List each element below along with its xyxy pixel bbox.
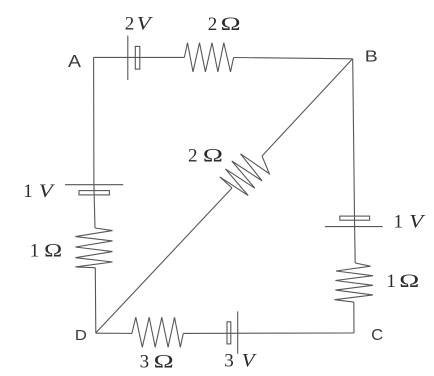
- wire right resistor to node C: [353, 302, 355, 333]
- resistor 2ohm (top): [184, 43, 233, 72]
- svg-text:A: A: [68, 51, 81, 71]
- battery 1V (right) long plate: [325, 226, 383, 228]
- svg-text:C: C: [371, 327, 383, 344]
- svg-text:1: 1: [394, 212, 404, 233]
- battery 1V (left) long plate: [65, 184, 123, 186]
- svg-text:1: 1: [386, 271, 396, 292]
- resistor 1ohm (left): [75, 228, 112, 268]
- svg-text:2: 2: [208, 14, 218, 35]
- wire bottom resistor to node D: [96, 332, 132, 334]
- battery 3V (bottom) long plate: [237, 311, 239, 353]
- svg-text:2: 2: [125, 14, 135, 35]
- svg-text:D: D: [75, 327, 87, 344]
- svg-text:B: B: [365, 49, 378, 66]
- wire A to top resistor through battery 2V: [94, 56, 185, 58]
- svg-text:3: 3: [140, 352, 150, 373]
- diagonal wire D to middle resistor: [96, 188, 232, 333]
- resistor 3ohm (bottom): [132, 317, 183, 347]
- svg-text:Ω: Ω: [399, 271, 419, 292]
- battery 3V (bottom) short plate: [227, 322, 231, 344]
- svg-text:V: V: [409, 212, 426, 233]
- svg-text:V: V: [39, 181, 56, 202]
- svg-text:Ω: Ω: [44, 241, 62, 262]
- resistor 1ohm (right): [335, 263, 373, 302]
- svg-text:2: 2: [188, 146, 198, 167]
- battery 1V (left) short plate: [79, 191, 109, 195]
- svg-text:V: V: [242, 351, 258, 372]
- diagonal wire middle resistor to node B: [262, 59, 353, 156]
- svg-text:Ω: Ω: [154, 352, 174, 373]
- svg-text:Ω: Ω: [203, 146, 223, 167]
- wire D up to left resistor: [94, 268, 97, 333]
- battery 2V (top) short plate: [135, 46, 140, 69]
- wire B down to right resistor through battery 1V: [353, 59, 356, 263]
- svg-text:1: 1: [30, 241, 40, 262]
- battery 1V (right) short plate: [340, 216, 370, 220]
- svg-text:3: 3: [224, 351, 234, 372]
- resistor 2ohm (diagonal): [220, 154, 269, 196]
- wire top resistor to node B: [234, 58, 353, 59]
- svg-text:Ω: Ω: [221, 14, 241, 35]
- wire C to bottom resistor through battery 3V: [183, 332, 354, 334]
- battery 2V (top) long plate: [127, 36, 129, 80]
- wire left resistor up to node A through battery 1V: [94, 57, 95, 228]
- svg-text:V: V: [137, 14, 154, 35]
- svg-text:1: 1: [23, 181, 33, 202]
